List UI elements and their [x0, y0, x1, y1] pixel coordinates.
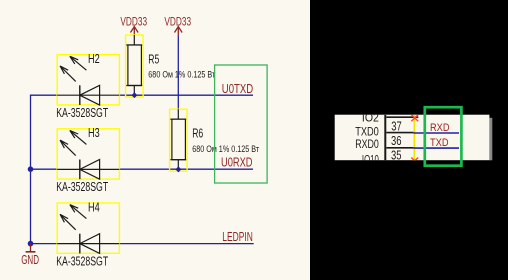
svg-text:TXD0: TXD0 [355, 126, 379, 138]
svg-text:RXD0: RXD0 [355, 139, 379, 151]
svg-text:37: 37 [391, 119, 402, 134]
panel shadow [489, 118, 492, 161]
no-connect X on IO2 [411, 115, 418, 122]
svg-text:680 Ом 1% 0.125 Вт: 680 Ом 1% 0.125 Вт [192, 144, 259, 155]
wire RXD [414, 132, 459, 134]
pin stub 36 [386, 147, 414, 149]
selection box (green) [425, 107, 462, 166]
svg-text:RXD: RXD [430, 122, 450, 134]
junction rail row2 [28, 166, 34, 172]
wire row3: LED H4 to LEDPIN [119, 243, 253, 245]
power symbol VDD33 (right) [175, 27, 183, 36]
svg-text:H3: H3 [88, 125, 100, 140]
wire TXD [414, 147, 459, 149]
junction rail row3 [28, 241, 34, 247]
svg-text:H2: H2 [88, 51, 100, 66]
power symbol VDD33 (left) [131, 27, 139, 36]
wire row2: rail to LED H3 [30, 168, 57, 170]
LED H3 [56, 129, 119, 194]
chip edge U2 [384, 115, 386, 161]
junction at R5 bottom [131, 92, 137, 98]
wire row1: LED H2 to U0TXD [119, 94, 253, 96]
resistor R5 [126, 35, 144, 97]
wire VDD33 to R6 [177, 36, 179, 109]
svg-text:TXD: TXD [430, 137, 449, 149]
wire row1: rail to LED H2 [30, 94, 57, 96]
svg-text:U0TXD: U0TXD [222, 81, 253, 96]
LED H4 [56, 203, 119, 268]
wire left rail [30, 95, 32, 243]
LED H2 [56, 55, 119, 120]
svg-text:VDD33: VDD33 [164, 14, 191, 28]
pin stub 37 [386, 132, 414, 134]
svg-text:LEDPIN: LEDPIN [222, 229, 253, 244]
pin stub IO2 [386, 116, 418, 118]
port box U1 (green) [215, 65, 268, 183]
no-connect X on IO10 [411, 158, 418, 165]
svg-text:680 Ом 1% 0.125 Вт: 680 Ом 1% 0.125 Вт [148, 70, 215, 81]
svg-text:U0RXD: U0RXD [221, 155, 253, 170]
svg-text:VDD33: VDD33 [120, 14, 147, 28]
svg-text:36: 36 [391, 133, 402, 148]
ground GND [21, 244, 39, 267]
svg-text:R5: R5 [148, 51, 159, 66]
wire row2: LED H3 to U0RXD [119, 168, 253, 170]
svg-text:GND: GND [21, 252, 39, 267]
wire vertical yellow [413, 115, 415, 161]
resistor R6 [170, 109, 188, 171]
panel strip background [335, 115, 490, 161]
schematic sheet background [0, 0, 310, 280]
junction at R6 bottom [175, 166, 181, 172]
svg-text:R6: R6 [192, 126, 203, 141]
svg-text:H4: H4 [88, 199, 100, 214]
wire row3: rail to LED H4 [30, 243, 57, 245]
